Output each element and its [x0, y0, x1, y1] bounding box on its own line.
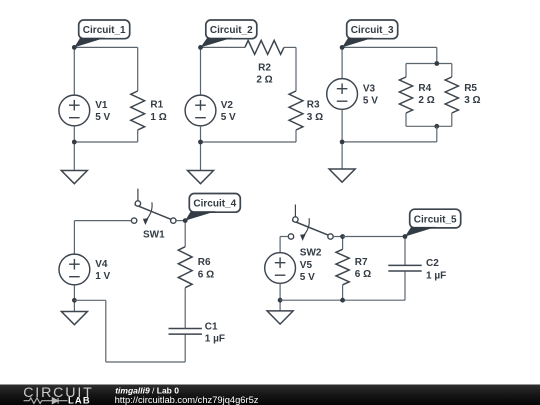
node R7 bottom junction [340, 298, 345, 303]
resistor R4 [399, 77, 412, 113]
resistor R7 [336, 249, 349, 284]
svg-text:5 V: 5 V [300, 272, 315, 283]
wire SW2 common to node [333, 236, 342, 238]
svg-text:R6: R6 [198, 257, 211, 268]
svg-text:1 V: 1 V [95, 271, 110, 282]
wire V4 to SW1 pole [74, 220, 131, 222]
svg-text:Circuit_2: Circuit_2 [210, 25, 253, 36]
wire C3 bottom [342, 141, 437, 143]
voltage source V5 [265, 253, 296, 284]
svg-text:6 Ω: 6 Ω [355, 269, 371, 280]
wire parallel bottom bus [406, 125, 452, 127]
voltage source V4 [59, 254, 90, 285]
wire SW1 common to node [176, 220, 185, 222]
node Circuit_3 [340, 45, 345, 50]
wire R4 bottom lead [405, 113, 407, 126]
wire R2 to corner [284, 46, 296, 48]
wire parallel top bus [406, 63, 452, 65]
resistor R6 [178, 247, 192, 288]
resistor R2 [245, 40, 284, 54]
svg-text:V4: V4 [95, 259, 108, 270]
svg-text:R7: R7 [355, 257, 368, 268]
wire V1 to ground [73, 126, 75, 171]
wire V4 top lead [73, 221, 75, 255]
svg-text:Circuit_5: Circuit_5 [414, 214, 457, 225]
wire R1 bottom lead [137, 130, 139, 142]
node label Circuit_1 [74, 20, 129, 47]
footer bar [0, 385, 540, 405]
wire R3 bottom lead [295, 130, 297, 142]
wire C1 top [74, 46, 137, 48]
wire V5 to ground [279, 283, 281, 311]
wire V5 to SW2 pole [280, 236, 288, 238]
wire R5 top lead [451, 64, 453, 78]
wire node to C2 top [343, 236, 405, 238]
wire node to R6 [184, 221, 186, 247]
svg-text:Circuit_1: Circuit_1 [83, 25, 126, 36]
wire V2 to ground [200, 126, 202, 171]
wire R7 bottom lead [342, 285, 344, 300]
wire V1 top lead [73, 47, 75, 95]
wire bottom return upper [74, 299, 105, 301]
svg-text:C1: C1 [205, 321, 218, 332]
node V5 bottom junction [278, 298, 283, 303]
svg-text:V1: V1 [95, 100, 108, 111]
node Circuit_2 [198, 45, 203, 50]
wire V3 top lead [341, 47, 343, 78]
svg-text:Circuit_4: Circuit_4 [193, 199, 236, 210]
ground G2 [188, 171, 214, 184]
wire V5 top lead [279, 237, 281, 253]
svg-text:R3: R3 [307, 100, 320, 111]
node V4 bottom junction [72, 298, 77, 303]
wire C2 top lead [404, 237, 406, 266]
svg-text:3 Ω: 3 Ω [464, 95, 480, 106]
node Circuit_4 [183, 218, 188, 223]
svg-text:1 Ω: 1 Ω [150, 112, 166, 123]
node label Circuit_3 [342, 20, 398, 47]
wire C2 bottom [201, 141, 297, 143]
svg-text:R5: R5 [464, 83, 477, 94]
node label Circuit_2 [201, 20, 257, 47]
wire C2 bottom lead [404, 271, 406, 300]
svg-text:V2: V2 [221, 100, 234, 111]
node Circuit_1 [72, 45, 77, 50]
node label Circuit_5 [405, 209, 461, 236]
wire C1 bottom lead [184, 334, 186, 362]
wire C1 bottom [74, 141, 137, 143]
svg-text:V5: V5 [300, 260, 313, 271]
node label Circuit_4 [185, 194, 240, 221]
svg-text:1 µF: 1 µF [205, 334, 225, 345]
svg-text:R2: R2 [258, 62, 271, 73]
svg-text:SW1: SW1 [143, 230, 165, 241]
resistor R1 [131, 91, 145, 130]
wire R7 top lead [342, 237, 344, 250]
ground G4 [61, 312, 87, 325]
svg-text:R4: R4 [418, 83, 431, 94]
node C3 bottom junction [340, 140, 345, 145]
footer text [115, 386, 259, 405]
svg-text:SW2: SW2 [300, 247, 322, 258]
svg-text:Circuit_3: Circuit_3 [351, 25, 394, 36]
svg-text:2 Ω: 2 Ω [256, 75, 272, 86]
svg-text:R1: R1 [150, 100, 163, 111]
svg-text:1 µF: 1 µF [426, 270, 446, 281]
wire to parallel top bus [436, 47, 438, 63]
wire bottom return lower [106, 361, 185, 363]
wire C3 top [342, 46, 437, 48]
wire bottom return riser [105, 300, 107, 362]
wire R3 top lead [295, 47, 297, 91]
svg-text:6 Ω: 6 Ω [198, 269, 214, 280]
svg-text:http://circuitlab.com/chz79jq4: http://circuitlab.com/chz79jq4g6r5z [115, 395, 259, 405]
ground G1 [61, 171, 87, 184]
switch SW1 [131, 189, 176, 225]
svg-text:LAB: LAB [68, 394, 91, 405]
wire C2 top left [201, 46, 245, 48]
svg-text:3 Ω: 3 Ω [307, 112, 323, 123]
wire R1 top lead [137, 47, 139, 91]
wire C5 bottom [280, 299, 405, 301]
resistor R5 [445, 77, 458, 113]
svg-text:V3: V3 [363, 84, 376, 95]
wire R6 to C1 [184, 288, 186, 329]
svg-text:C2: C2 [426, 258, 439, 269]
node parallel bottom junction [434, 124, 439, 129]
svg-text:timgalli9 / Lab 0: timgalli9 / Lab 0 [115, 386, 179, 396]
voltage source V2 [185, 95, 216, 126]
svg-text:5 V: 5 V [221, 112, 236, 123]
ground G5 [267, 311, 293, 324]
resistor R3 [289, 91, 303, 130]
wire R5 bottom lead [451, 113, 453, 126]
ground G3 [329, 169, 355, 182]
switch SW2 [288, 205, 333, 241]
wire V2 top lead [200, 47, 202, 95]
node Circuit_5 [403, 234, 408, 239]
logo CIRCUIT LAB [23, 385, 93, 405]
wire V4 to ground [73, 285, 75, 312]
node parallel top junction [434, 61, 439, 66]
capacitor C2 [388, 265, 421, 271]
wire junction to bottom [436, 126, 438, 142]
voltage source V3 [327, 79, 358, 110]
svg-text:5 V: 5 V [363, 96, 378, 107]
wire V3 to ground [341, 109, 343, 169]
node C2 bottom junction [198, 140, 203, 145]
svg-text:5 V: 5 V [95, 112, 110, 123]
wire R4 top lead [405, 64, 407, 78]
svg-text:2 Ω: 2 Ω [418, 95, 434, 106]
voltage source V1 [59, 95, 90, 126]
node SW2 common junction [340, 234, 345, 239]
capacitor C1 [169, 329, 202, 335]
node C1 bottom junction [72, 140, 77, 145]
